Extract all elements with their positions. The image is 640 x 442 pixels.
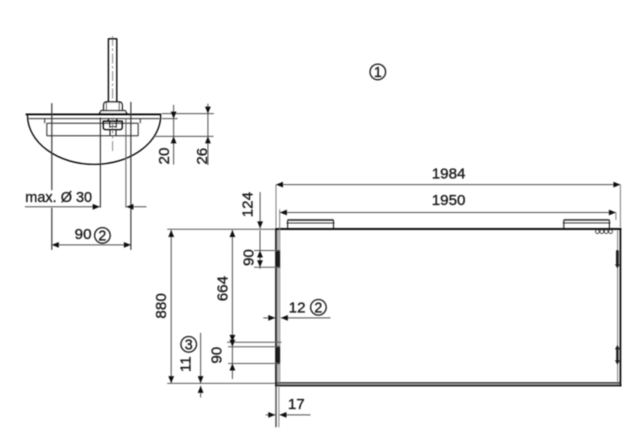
bottom stub lines below box (17 refs) (275, 386, 277, 427)
extension line bottom-left (880 bottom / 11 upper ref) (167, 382, 275, 384)
left hanger tab (287, 220, 335, 228)
dim 124 (half dimension, arrow down to top edge) (257, 192, 263, 228)
dim 11 (198, 333, 204, 398)
svg-text:20: 20 (156, 148, 173, 165)
dim 664 (227, 230, 282, 342)
left rail bar lower (277, 346, 281, 364)
appliance body outline (275, 228, 621, 386)
dim 20 line and arrows (171, 105, 177, 165)
max Ø30 extension lines (99, 118, 101, 208)
dim 90(2) extension lines (51, 103, 53, 190)
upper hex nut (104, 102, 123, 111)
svg-text:1984: 1984 (432, 165, 466, 182)
dome half-ellipse (28, 115, 161, 164)
centerline of threaded rod (112, 36, 114, 152)
dim 90 lower (left rail) (228, 340, 280, 379)
four vent holes top right (596, 230, 613, 234)
svg-text:max. Ø 30: max. Ø 30 (25, 189, 92, 206)
washer under nut (99, 111, 127, 114)
bracket channel inside dome (45, 119, 141, 136)
rod end below lower nut (110, 130, 116, 136)
svg-text:90: 90 (75, 226, 92, 243)
dim 20 / 26 extension lines (162, 113, 214, 115)
right double-arrow marker lower (615, 345, 620, 365)
dim 1950 (280, 210, 616, 220)
dim 17 (266, 412, 311, 418)
svg-text:17: 17 (288, 396, 305, 413)
svg-text:12: 12 (289, 300, 306, 317)
dim 12 (side panel offset) (263, 315, 330, 321)
dim 26 line and arrows (205, 104, 211, 165)
left rail bar upper (277, 250, 281, 268)
dim 90 upper (left rail) (254, 230, 280, 268)
right down-arrow marker upper (615, 250, 620, 268)
dim 1984 (276, 182, 620, 228)
circled 2 (dome) (95, 228, 111, 245)
svg-text:1950: 1950 (432, 192, 466, 209)
circled 2 (box) (311, 300, 327, 317)
dome plate underside (29, 118, 160, 120)
svg-text:2: 2 (98, 229, 106, 245)
dim 880 (168, 230, 174, 383)
lower hex nut inside bracket (103, 121, 122, 129)
svg-text:11: 11 (178, 356, 195, 372)
right hanger tab (563, 220, 611, 228)
svg-text:664: 664 (215, 276, 232, 301)
svg-text:1: 1 (374, 65, 382, 81)
extension line top-left (to 880/664 tips and 124) (167, 228, 275, 230)
svg-text:26: 26 (194, 148, 211, 165)
dome top plate (26, 113, 162, 115)
circled 3 (181, 337, 197, 354)
svg-text:3: 3 (185, 338, 193, 354)
svg-text:2: 2 (314, 301, 322, 317)
svg-text:124: 124 (240, 192, 257, 217)
dim 90(2) line with arrows (52, 242, 131, 248)
svg-text:90: 90 (209, 347, 226, 364)
inner right panel line (617, 230, 619, 385)
inner left panel lines (277, 230, 279, 385)
dim max Ø30 line with arrows (25, 204, 147, 210)
svg-text:90: 90 (240, 249, 257, 266)
threaded rod (108, 39, 117, 121)
circled 1 (370, 64, 386, 81)
svg-text:880: 880 (153, 293, 170, 318)
